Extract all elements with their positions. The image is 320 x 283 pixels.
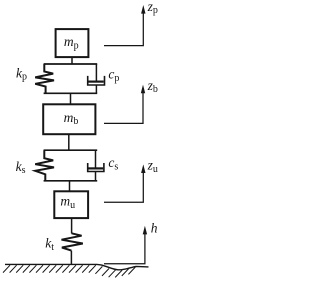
svg-text:h: h xyxy=(151,221,158,236)
